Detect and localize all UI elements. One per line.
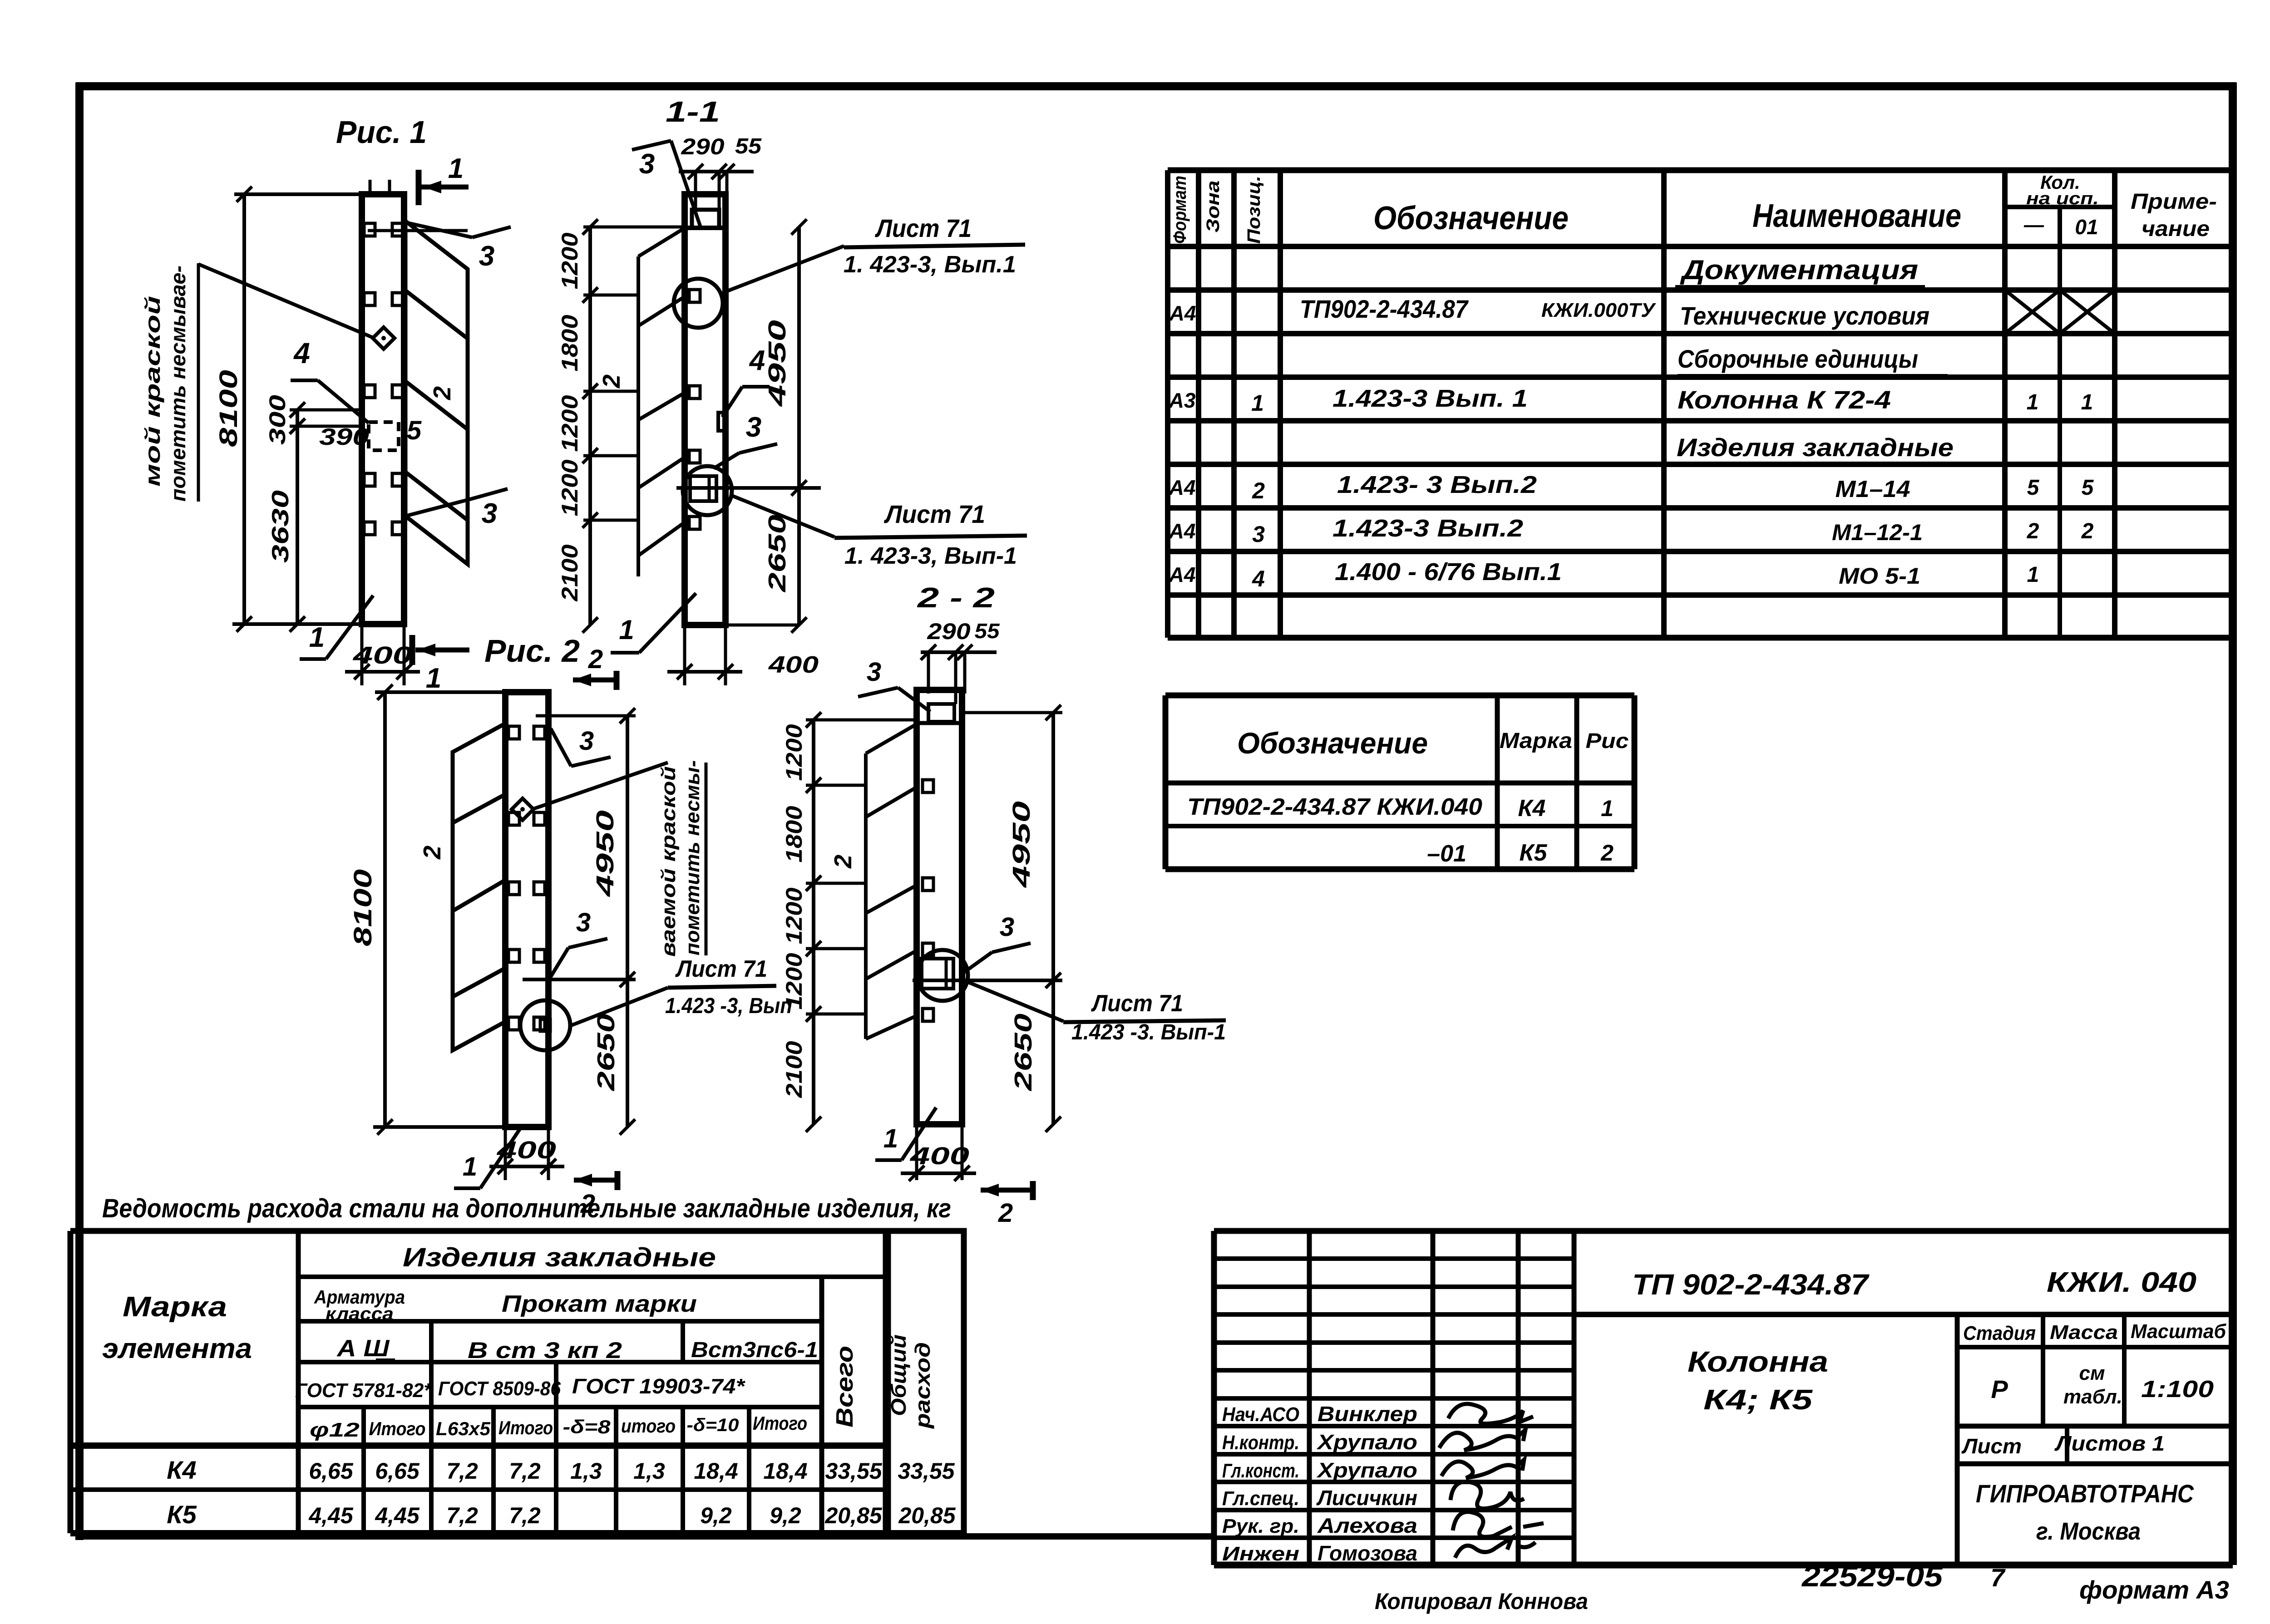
svg-text:3: 3 <box>576 908 591 937</box>
svg-text:φ12: φ12 <box>310 1419 360 1441</box>
svg-text:20,85: 20,85 <box>898 1503 956 1528</box>
svg-text:ГОСТ 19903-74*: ГОСТ 19903-74* <box>572 1374 745 1398</box>
svg-text:Сборочные единицы: Сборочные единицы <box>1678 344 1918 373</box>
svg-text:18,4: 18,4 <box>694 1458 738 1484</box>
svg-text:1. 423-3, Вып.1: 1. 423-3, Вып.1 <box>844 251 1016 278</box>
svg-text:4950: 4950 <box>1008 801 1035 888</box>
svg-text:Лисичкин: Лисичкин <box>1316 1486 1417 1510</box>
svg-text:Итого: Итого <box>753 1412 807 1434</box>
svg-text:К4; К5: К4; К5 <box>1703 1384 1813 1416</box>
svg-text:4,45: 4,45 <box>375 1503 420 1528</box>
svg-text:6,65: 6,65 <box>309 1458 354 1484</box>
svg-text:5: 5 <box>2027 476 2040 500</box>
svg-text:3: 3 <box>867 657 881 687</box>
svg-text:7,2: 7,2 <box>509 1458 541 1484</box>
svg-text:1.423- 3 Вып.2: 1.423- 3 Вып.2 <box>1337 471 1537 498</box>
svg-text:М1–12-1: М1–12-1 <box>1832 520 1923 545</box>
svg-text:1-1: 1-1 <box>666 95 720 128</box>
svg-text:1:100: 1:100 <box>2141 1376 2214 1403</box>
svg-text:3: 3 <box>479 241 494 272</box>
svg-text:Документация: Документация <box>1679 255 1918 285</box>
svg-text:2: 2 <box>1600 840 1614 866</box>
svg-text:1: 1 <box>1601 796 1614 821</box>
svg-text:Позиц.: Позиц. <box>1244 176 1264 244</box>
svg-text:2: 2 <box>588 645 603 674</box>
svg-text:1200: 1200 <box>557 395 582 452</box>
svg-text:А4: А4 <box>1169 519 1196 543</box>
svg-text:г. Москва: г. Москва <box>2036 1518 2141 1545</box>
svg-text:4: 4 <box>293 337 310 369</box>
svg-text:2650: 2650 <box>764 515 791 592</box>
svg-text:2650: 2650 <box>1010 1014 1037 1091</box>
svg-text:7,2: 7,2 <box>446 1503 478 1528</box>
svg-text:1800: 1800 <box>781 806 807 862</box>
svg-text:КЖИ. 040: КЖИ. 040 <box>2047 1267 2196 1298</box>
svg-text:9,2: 9,2 <box>770 1503 801 1528</box>
svg-text:1200: 1200 <box>557 232 582 289</box>
svg-text:Изделия закладные: Изделия закладные <box>1677 433 1954 462</box>
svg-text:ТП 902-2-434.87: ТП 902-2-434.87 <box>1632 1268 1870 1301</box>
svg-text:Стадия: Стадия <box>1963 1322 2036 1344</box>
svg-text:Марка: Марка <box>123 1291 227 1323</box>
svg-text:1.423-3 Вып.2: 1.423-3 Вып.2 <box>1332 515 1523 542</box>
svg-text:33,55: 33,55 <box>825 1458 882 1484</box>
svg-text:1: 1 <box>619 615 634 645</box>
svg-text:3: 3 <box>579 726 594 756</box>
svg-text:1200: 1200 <box>781 724 807 781</box>
svg-text:3: 3 <box>639 148 655 180</box>
svg-text:2: 2 <box>2027 519 2039 543</box>
svg-text:2: 2 <box>598 374 625 389</box>
svg-text:Хрупало: Хрупало <box>1316 1430 1417 1454</box>
svg-text:см: см <box>2079 1362 2105 1384</box>
svg-text:20,85: 20,85 <box>824 1503 882 1528</box>
svg-text:Р: Р <box>1991 1375 2008 1403</box>
svg-text:Всего: Всего <box>832 1346 858 1427</box>
svg-text:1800: 1800 <box>557 315 582 371</box>
svg-text:Хрупало: Хрупало <box>1316 1458 1417 1482</box>
svg-text:1: 1 <box>2081 390 2093 414</box>
svg-text:Лист 71: Лист 71 <box>1091 990 1183 1017</box>
svg-text:Итого: Итого <box>369 1418 426 1439</box>
svg-text:Формат: Формат <box>1170 176 1190 244</box>
svg-text:3: 3 <box>482 498 497 529</box>
svg-text:Приме-: Приме- <box>2131 190 2217 214</box>
svg-text:18,4: 18,4 <box>763 1458 807 1484</box>
svg-text:А3: А3 <box>1169 389 1196 412</box>
svg-text:К4: К4 <box>167 1456 197 1484</box>
svg-text:2 - 2: 2 - 2 <box>917 582 995 614</box>
svg-text:2: 2 <box>998 1198 1013 1228</box>
svg-text:формат А3: формат А3 <box>2079 1575 2229 1604</box>
svg-text:К5: К5 <box>1520 840 1548 866</box>
svg-text:1: 1 <box>448 153 464 184</box>
svg-text:3: 3 <box>1000 912 1014 942</box>
svg-text:Лист: Лист <box>1961 1434 2022 1458</box>
svg-text:1200: 1200 <box>781 953 807 1009</box>
svg-text:ваемой краской: ваемой краской <box>657 766 680 957</box>
svg-text:—: — <box>2023 214 2044 236</box>
svg-text:Масса: Масса <box>2050 1321 2118 1343</box>
svg-text:1200: 1200 <box>557 459 582 516</box>
svg-text:5: 5 <box>407 416 422 445</box>
svg-text:1,3: 1,3 <box>633 1458 665 1484</box>
svg-text:L63x5: L63x5 <box>436 1418 491 1439</box>
svg-text:Нач.АСО: Нач.АСО <box>1222 1403 1299 1426</box>
svg-text:табл.: табл. <box>2063 1386 2122 1408</box>
svg-text:–01: –01 <box>1427 841 1466 867</box>
svg-text:Алехова: Алехова <box>1317 1514 1417 1537</box>
svg-text:400: 400 <box>910 1142 969 1170</box>
svg-text:1: 1 <box>2027 563 2039 587</box>
svg-text:класса: класса <box>326 1304 394 1324</box>
svg-text:Изделия закладные: Изделия закладные <box>403 1243 716 1272</box>
svg-text:Ведомость расхода стали на: Ведомость расхода стали на дополнительны… <box>102 1194 951 1223</box>
svg-text:55: 55 <box>975 619 1001 643</box>
svg-text:300: 300 <box>265 395 290 445</box>
svg-text:Копировал Коннова: Копировал Коннова <box>1375 1589 1588 1614</box>
svg-text:1: 1 <box>2027 390 2039 414</box>
svg-text:2: 2 <box>829 855 857 869</box>
svg-text:4: 4 <box>749 345 765 376</box>
svg-text:ГОСТ 8509-86: ГОСТ 8509-86 <box>438 1378 561 1400</box>
svg-text:Лист 71: Лист 71 <box>874 214 972 242</box>
svg-text:1200: 1200 <box>781 887 807 944</box>
svg-text:3: 3 <box>746 412 761 443</box>
svg-text:2100: 2100 <box>557 544 582 601</box>
svg-text:1: 1 <box>426 663 441 694</box>
svg-text:2: 2 <box>580 1189 595 1219</box>
svg-text:Гл.спец.: Гл.спец. <box>1222 1487 1299 1510</box>
svg-text:Лист 71: Лист 71 <box>675 956 767 982</box>
svg-text:1.423 -3. Вып-1: 1.423 -3. Вып-1 <box>1071 1020 1226 1044</box>
svg-text:А4: А4 <box>1169 563 1196 586</box>
svg-text:4950: 4950 <box>764 320 791 407</box>
svg-text:МО 5-1: МО 5-1 <box>1839 563 1920 589</box>
svg-text:5: 5 <box>2082 476 2094 500</box>
svg-text:Рук. гр.: Рук. гр. <box>1222 1515 1299 1537</box>
svg-text:КЖИ.000ТУ: КЖИ.000ТУ <box>1541 299 1656 321</box>
svg-text:Н.контр.: Н.контр. <box>1222 1432 1299 1454</box>
svg-text:2100: 2100 <box>781 1041 807 1098</box>
svg-text:8100: 8100 <box>348 869 377 946</box>
svg-text:55: 55 <box>735 134 762 158</box>
svg-text:В ст 3 кп 2: В ст 3 кп 2 <box>468 1338 622 1363</box>
svg-text:Инжен: Инжен <box>1222 1543 1299 1565</box>
svg-text:1: 1 <box>883 1124 898 1153</box>
svg-text:ТП902-2-434.87: ТП902-2-434.87 <box>1300 295 1469 323</box>
svg-text:Обозначение: Обозначение <box>1373 200 1569 236</box>
svg-text:1.400 - 6/76 Вып.1: 1.400 - 6/76 Вып.1 <box>1335 558 1562 586</box>
svg-text:Прокат марки: Прокат марки <box>502 1291 697 1317</box>
svg-text:2650: 2650 <box>592 1014 620 1091</box>
svg-text:ГИПРОАВТОТРАНС: ГИПРОАВТОТРАНС <box>1976 1479 2194 1508</box>
svg-text:1: 1 <box>309 622 325 653</box>
svg-text:3: 3 <box>1252 522 1265 547</box>
svg-text:7: 7 <box>1990 1563 2006 1592</box>
svg-text:расход: расход <box>911 1342 934 1429</box>
svg-text:33,55: 33,55 <box>898 1458 955 1484</box>
svg-text:400: 400 <box>353 642 412 669</box>
svg-text:Лист 71: Лист 71 <box>883 500 985 528</box>
svg-text:Рис: Рис <box>1586 729 1629 753</box>
svg-text:2: 2 <box>429 386 456 400</box>
svg-text:Колонна: Колонна <box>1688 1345 1828 1378</box>
svg-text:2: 2 <box>2081 519 2094 543</box>
svg-text:390: 390 <box>319 424 369 450</box>
svg-text:пометить несмывае-: пометить несмывае- <box>166 266 190 502</box>
svg-text:Зона: Зона <box>1203 181 1223 233</box>
svg-text:8100: 8100 <box>214 370 242 447</box>
svg-text:7,2: 7,2 <box>509 1503 541 1528</box>
svg-text:Листов 1: Листов 1 <box>2054 1432 2165 1455</box>
svg-text:А Ш: А Ш <box>336 1335 390 1362</box>
svg-text:4,45: 4,45 <box>308 1503 354 1528</box>
svg-text:3630: 3630 <box>267 490 294 563</box>
svg-text:Итого: Итого <box>498 1417 553 1438</box>
svg-text:К5: К5 <box>167 1500 197 1529</box>
svg-text:Общий: Общий <box>887 1334 910 1416</box>
svg-text:9,2: 9,2 <box>700 1503 732 1528</box>
svg-text:А4: А4 <box>1169 301 1196 325</box>
svg-text:290: 290 <box>927 619 970 644</box>
svg-text:Рис. 2: Рис. 2 <box>484 633 580 669</box>
svg-text:-δ=8: -δ=8 <box>563 1416 611 1437</box>
svg-text:на исп.: на исп. <box>2026 189 2099 208</box>
svg-text:2: 2 <box>419 846 446 860</box>
svg-text:пометить несмы-: пометить несмы- <box>681 760 704 955</box>
svg-text:1,3: 1,3 <box>570 1458 602 1484</box>
svg-text:4: 4 <box>1252 566 1265 591</box>
svg-text:ГОСТ 5781-82*: ГОСТ 5781-82* <box>295 1379 432 1402</box>
svg-text:ТП902-2-434.87 КЖИ.040: ТП902-2-434.87 КЖИ.040 <box>1187 794 1482 820</box>
svg-text:Марка: Марка <box>1500 729 1572 753</box>
svg-text:Винклер: Винклер <box>1318 1402 1417 1426</box>
svg-text:1.423-3 Вып. 1: 1.423-3 Вып. 1 <box>1332 385 1528 412</box>
svg-text:элемента: элемента <box>102 1333 252 1364</box>
svg-text:Масштаб: Масштаб <box>2131 1320 2227 1343</box>
svg-text:Колонна К 72-4: Колонна К 72-4 <box>1678 385 1891 414</box>
svg-text:-δ=10: -δ=10 <box>687 1415 739 1435</box>
svg-text:итого: итого <box>621 1415 676 1437</box>
svg-text:А4: А4 <box>1169 476 1196 499</box>
svg-text:1: 1 <box>463 1152 477 1181</box>
svg-text:Рис. 1: Рис. 1 <box>336 114 427 150</box>
svg-text:01: 01 <box>2075 215 2098 239</box>
svg-text:чание: чание <box>2142 217 2210 241</box>
svg-text:Обозначение: Обозначение <box>1237 726 1428 760</box>
svg-text:1: 1 <box>1251 390 1264 416</box>
svg-text:400: 400 <box>768 652 819 678</box>
svg-text:К4: К4 <box>1518 795 1546 822</box>
svg-text:Вст3пс6-1: Вст3пс6-1 <box>691 1338 818 1362</box>
svg-text:Наименование: Наименование <box>1752 198 1961 234</box>
svg-text:Технические условия: Технические условия <box>1680 301 1929 330</box>
svg-text:1. 423-3, Вып-1: 1. 423-3, Вып-1 <box>844 543 1017 569</box>
svg-text:1.423 -3, Вып: 1.423 -3, Вып <box>665 994 792 1018</box>
svg-text:22529-05: 22529-05 <box>1801 1560 1944 1593</box>
svg-text:4950: 4950 <box>592 810 619 897</box>
svg-text:6,65: 6,65 <box>375 1458 420 1484</box>
svg-text:Гл.конст.: Гл.конст. <box>1222 1460 1299 1482</box>
svg-text:М1–14: М1–14 <box>1836 476 1910 502</box>
svg-text:290: 290 <box>681 134 724 159</box>
svg-text:7,2: 7,2 <box>446 1458 478 1484</box>
svg-text:мой краской: мой краской <box>141 296 164 487</box>
svg-text:Гомозова: Гомозова <box>1318 1541 1417 1565</box>
svg-text:2: 2 <box>1252 478 1265 503</box>
